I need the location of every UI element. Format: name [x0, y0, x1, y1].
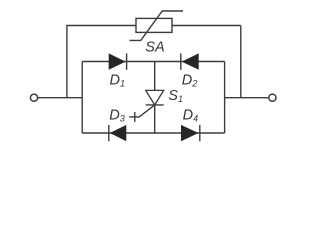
wire bridge bottom row: [82, 132, 224, 134]
wire outer loop left vertical: [67, 26, 136, 98]
wire bridge right vertical: [224, 62, 226, 134]
svg-text:D4: D4: [183, 108, 199, 124]
thyristor S1 gate lead: [129, 105, 155, 117]
wire outer loop right vertical: [240, 26, 242, 98]
varistor SA body: [136, 18, 172, 32]
diode D4 cathode bar: [199, 125, 201, 141]
svg-text:S1: S1: [168, 88, 183, 104]
svg-text:D1: D1: [110, 73, 126, 89]
diode D3: [110, 125, 127, 141]
diode D2: [182, 53, 199, 69]
thyristor S1 gate tick: [134, 112, 136, 122]
wire bridge left vertical: [81, 62, 83, 134]
svg-text:D2: D2: [182, 73, 198, 89]
thyristor S1: [146, 90, 164, 105]
diode D3 cathode bar: [108, 125, 110, 141]
diode D1: [109, 53, 126, 69]
terminal right: [269, 94, 276, 101]
diode D2 cathode bar: [180, 53, 182, 69]
varistor SA diagonal stroke: [130, 11, 184, 40]
diode D4: [181, 125, 199, 141]
diode D1 cathode bar: [126, 53, 128, 69]
svg-text:D3: D3: [109, 108, 125, 124]
wire center column upper: [154, 62, 156, 91]
wire bridge to right terminal: [225, 97, 269, 99]
wire bridge top row: [82, 61, 224, 63]
wire left terminal to bridge: [38, 97, 82, 99]
wire outer loop top right segment: [172, 25, 241, 27]
svg-text:SA: SA: [145, 40, 164, 56]
wire center column lower: [154, 105, 156, 133]
terminal left: [30, 94, 37, 101]
